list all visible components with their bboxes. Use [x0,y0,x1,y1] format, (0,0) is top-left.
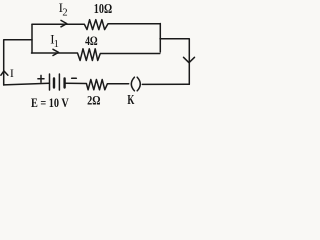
svg-text:10Ω: 10Ω [94,1,112,16]
svg-text:I: I [10,66,14,80]
svg-text:1: 1 [54,39,59,50]
svg-text:4Ω: 4Ω [85,33,98,48]
svg-text:2Ω: 2Ω [87,93,100,108]
svg-text:E = 10 V: E = 10 V [31,95,69,110]
svg-text:2: 2 [62,8,67,19]
svg-text:K: K [127,93,134,108]
